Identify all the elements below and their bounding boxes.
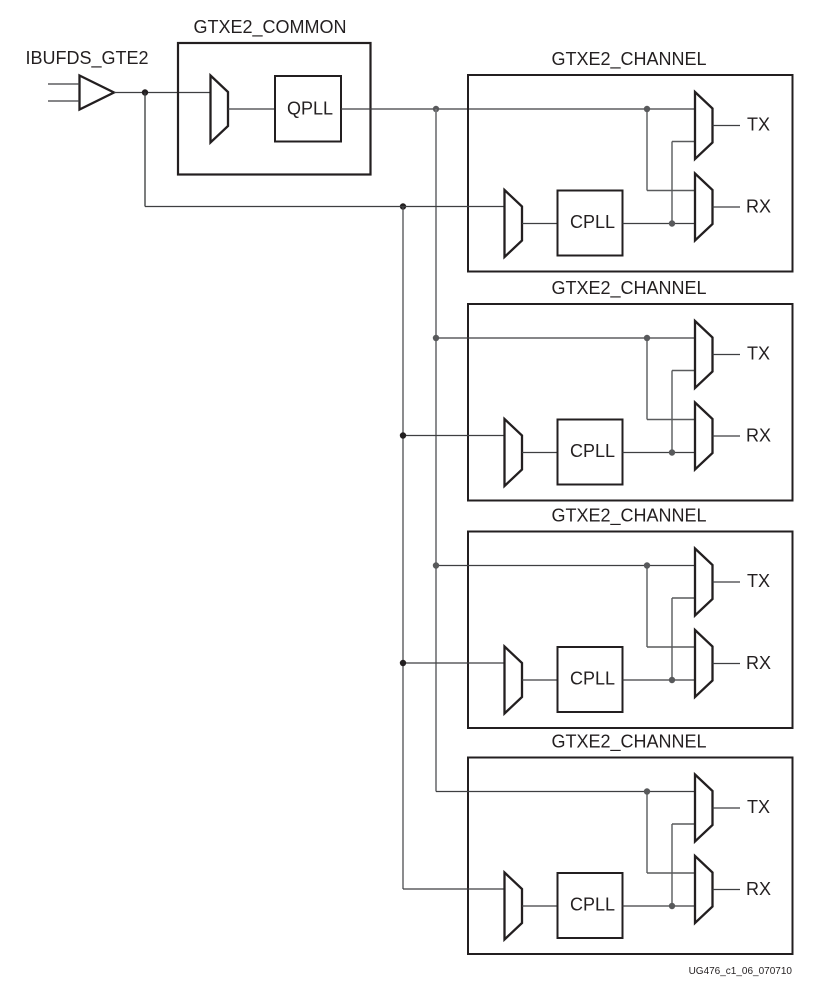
wire refclk into channel 2 — [403, 435, 505, 437]
mux RX clock ch1 — [695, 174, 713, 241]
node QPLL trunk junction ch2 — [433, 335, 439, 341]
wire RX output ch2 — [713, 435, 741, 437]
wire QPLL to RX mux drop ch4 — [646, 792, 648, 874]
wire CPLL to TX mux ch1 — [672, 141, 695, 143]
mux TX clock ch3 — [695, 549, 713, 616]
svg-text:GTXE2_CHANNEL: GTXE2_CHANNEL — [551, 506, 706, 527]
block GTXE2_CHANNEL 3 — [468, 532, 793, 729]
wire QPLL clock into channel 4 — [436, 791, 695, 793]
wire CPLL to TX mux rise ch1 — [671, 142, 673, 224]
mux common refclk — [211, 76, 229, 143]
wire QPLL to RX mux drop ch1 — [646, 109, 648, 191]
wire CPLL output ch2 — [623, 452, 696, 454]
PLL CPLL box ch4 — [558, 873, 623, 938]
wire mux to CPLL ch3 — [522, 679, 558, 681]
svg-text:QPLL: QPLL — [287, 99, 333, 119]
node refclk junction — [142, 89, 148, 95]
wire mux to QPLL — [228, 108, 275, 110]
mux RX clock ch2 — [695, 403, 713, 470]
block GTXE2_COMMON — [178, 43, 371, 175]
svg-text:GTXE2_COMMON: GTXE2_COMMON — [193, 17, 346, 38]
wire QPLL clock into channel 2 — [436, 337, 695, 339]
wire CPLL output ch4 — [623, 905, 696, 907]
svg-text:RX: RX — [746, 653, 771, 673]
PLL QPLL box — [275, 76, 341, 142]
wire QPLL output — [341, 108, 695, 110]
svg-text:CPLL: CPLL — [570, 212, 615, 232]
wire buffer output — [114, 92, 211, 94]
mux TX clock ch2 — [695, 321, 713, 388]
svg-text:GTXE2_CHANNEL: GTXE2_CHANNEL — [551, 732, 706, 753]
wire TX output ch3 — [713, 581, 741, 583]
wire QPLL to RX mux ch2 — [647, 419, 695, 421]
svg-text:TX: TX — [747, 344, 770, 364]
node QPLL line branch — [433, 106, 439, 112]
wire QPLL to RX mux drop ch3 — [646, 566, 648, 648]
node refclk trunk junction ch3 — [400, 660, 406, 666]
svg-text:CPLL: CPLL — [570, 441, 615, 461]
node refclk trunk junction ch2 — [400, 432, 406, 438]
svg-text:GTXE2_CHANNEL: GTXE2_CHANNEL — [551, 49, 706, 70]
node CPLL branch ch3 — [669, 677, 675, 683]
wire CPLL output ch3 — [623, 679, 696, 681]
node CPLL branch ch2 — [669, 449, 675, 455]
svg-text:RX: RX — [746, 879, 771, 899]
block GTXE2_CHANNEL 1 — [468, 75, 793, 272]
node CPLL branch ch1 — [669, 220, 675, 226]
wire CPLL to TX mux rise ch3 — [671, 598, 673, 680]
wire TX output ch1 — [713, 125, 741, 127]
svg-text:IBUFDS_GTE2: IBUFDS_GTE2 — [26, 48, 149, 69]
wire buffer input P — [48, 83, 80, 85]
wire QPLL to RX mux ch4 — [647, 872, 695, 874]
wire RX output ch3 — [713, 663, 741, 665]
svg-text:CPLL: CPLL — [570, 895, 615, 915]
mux TX clock ch1 — [695, 92, 713, 159]
svg-text:CPLL: CPLL — [570, 669, 615, 689]
node CPLL refclk branch ch1 — [400, 203, 406, 209]
wire CPLL to TX mux rise ch2 — [671, 371, 673, 453]
wire TX output ch2 — [713, 354, 741, 356]
block GTXE2_CHANNEL 2 — [468, 304, 793, 501]
PLL CPLL box ch2 — [558, 420, 623, 485]
mux channel 4 refclk — [505, 873, 523, 940]
wire refclk drop — [144, 93, 146, 207]
svg-text:GTXE2_CHANNEL: GTXE2_CHANNEL — [551, 278, 706, 299]
wire CPLL output ch1 — [623, 223, 696, 225]
block GTXE2_CHANNEL 4 — [468, 758, 793, 955]
svg-text:TX: TX — [747, 115, 770, 135]
PLL CPLL box ch3 — [558, 647, 623, 712]
svg-text:UG476_c1_06_070710: UG476_c1_06_070710 — [689, 966, 793, 977]
svg-text:RX: RX — [746, 197, 771, 217]
mux channel 1 refclk — [505, 190, 523, 257]
mux RX clock ch4 — [695, 856, 713, 923]
svg-text:TX: TX — [747, 797, 770, 817]
node QPLL trunk junction ch3 — [433, 562, 439, 568]
wire QPLL to RX mux ch1 — [647, 190, 695, 192]
mux channel 3 refclk — [505, 647, 523, 714]
wire mux to CPLL ch4 — [522, 905, 558, 907]
wire QPLL to RX mux drop ch2 — [646, 338, 648, 420]
wire CPLL to TX mux ch3 — [672, 597, 695, 599]
node QPLL branch ch1 — [644, 106, 650, 112]
mux RX clock ch3 — [695, 630, 713, 697]
wire QPLL clock trunk vertical — [435, 109, 437, 792]
buffer IBUFDS_GTE2 — [80, 76, 115, 110]
node QPLL branch ch3 — [644, 562, 650, 568]
svg-text:RX: RX — [746, 426, 771, 446]
node QPLL branch ch4 — [644, 788, 650, 794]
wire refclk into channel 4 — [403, 888, 505, 890]
wire refclk trunk vertical — [402, 207, 404, 890]
wire refclk into channel 1 — [145, 206, 505, 208]
wire CPLL to TX mux rise ch4 — [671, 824, 673, 906]
wire QPLL clock into channel 3 — [436, 565, 695, 567]
wire TX output ch4 — [713, 807, 741, 809]
mux TX clock ch4 — [695, 775, 713, 842]
node CPLL branch ch4 — [669, 903, 675, 909]
mux channel 2 refclk — [505, 419, 523, 486]
wire CPLL to TX mux ch2 — [672, 370, 695, 372]
wire mux to CPLL ch1 — [522, 223, 558, 225]
wire RX output ch4 — [713, 889, 741, 891]
svg-text:TX: TX — [747, 571, 770, 591]
wire RX output ch1 — [713, 206, 741, 208]
wire QPLL to RX mux ch3 — [647, 646, 695, 648]
wire buffer input N — [48, 100, 80, 102]
wire CPLL to TX mux ch4 — [672, 823, 695, 825]
wire refclk into channel 3 — [403, 662, 505, 664]
PLL CPLL box ch1 — [558, 191, 623, 256]
node QPLL branch ch2 — [644, 335, 650, 341]
wire mux to CPLL ch2 — [522, 452, 558, 454]
